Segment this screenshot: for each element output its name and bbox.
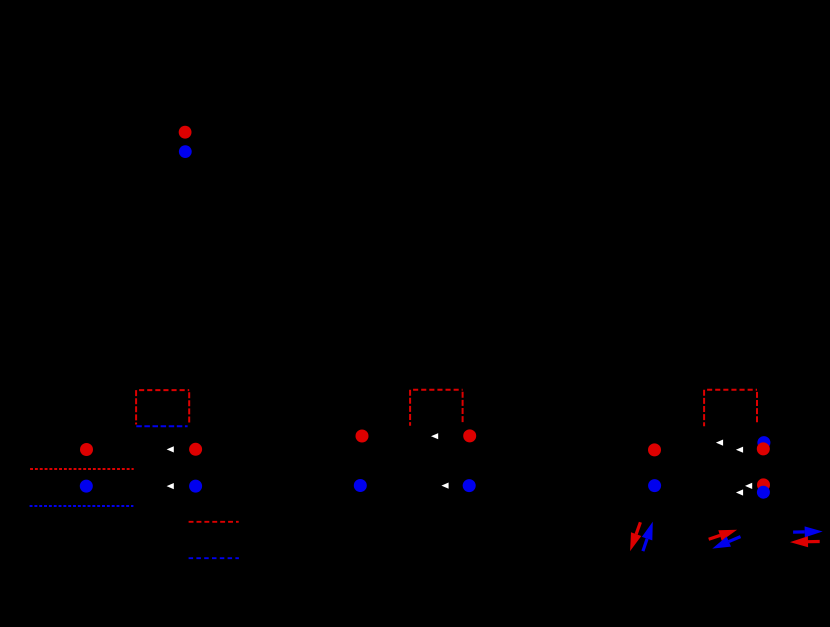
spin pair 1 blue arrow (up-right) [642,522,653,541]
panel-c right-bottom red atom (behind) [757,478,770,491]
panel-a left red atom [80,443,93,456]
spin pair 2 blue arrow (down-left shallow) [712,537,731,549]
panel-b red dashed excited-state box right edge [462,390,464,424]
panel-a upper white tunnelling triangle [167,446,174,452]
panel-a left blue atom [80,480,93,493]
panel-b red dashed excited-state box top edge [410,389,463,391]
panel-b upper white tunnelling triangle [431,433,438,439]
panel-b lower white tunnelling triangle [441,483,448,489]
top legend blue atom marker [179,145,192,158]
panel-b right red atom [463,429,476,442]
panel-a right blue atom [189,480,202,493]
panel-c lower-left white tunnelling triangle [736,489,743,495]
panel-b left red atom [356,430,369,443]
top legend red atom marker [179,126,192,139]
panel-c upper-right white tunnelling triangle [736,447,743,453]
panel-c left blue atom [648,479,661,492]
panel-a right red atom [189,443,202,456]
panel-c red dashed excited-state box left edge [703,390,705,426]
panel-a blue dashed level segment at box bottom [136,425,187,427]
spin pair 1 red arrow (down-left) [630,532,641,551]
panel-b red dashed excited-state box left edge [409,390,411,426]
panel-c right-top blue atom (behind) [757,436,770,449]
panel-a blue dashed energy level line [30,505,134,507]
legend blue dashed key line [189,557,239,559]
panel-a red dashed excited-state box right edge [188,390,190,424]
panel-c right-top red atom (front) [757,442,770,455]
spin pair 3 red arrow (left) [790,536,808,547]
panel-b right blue atom [463,479,476,492]
panel-c red dashed excited-state box top edge [704,389,757,391]
panel-c right-bottom blue atom (front) [757,486,770,499]
panel-c left red atom [648,443,661,456]
legend red dashed key line [189,521,239,523]
spin pair 2 red arrow (up-right shallow) [718,530,737,541]
spin pair 3 blue arrow (right) [805,526,823,537]
panel-c lower-right white tunnelling triangle [745,483,752,489]
panel-a red dashed excited-state box left edge [135,390,137,424]
panel-c upper-left white tunnelling triangle [716,440,723,446]
panel-c red dashed excited-state box right edge [756,390,758,424]
panel-a red dashed energy level line [30,468,134,470]
panel-b left blue atom [354,479,367,492]
panel-a red dashed excited-state box top edge [136,389,189,391]
panel-a lower white tunnelling triangle [167,483,174,489]
